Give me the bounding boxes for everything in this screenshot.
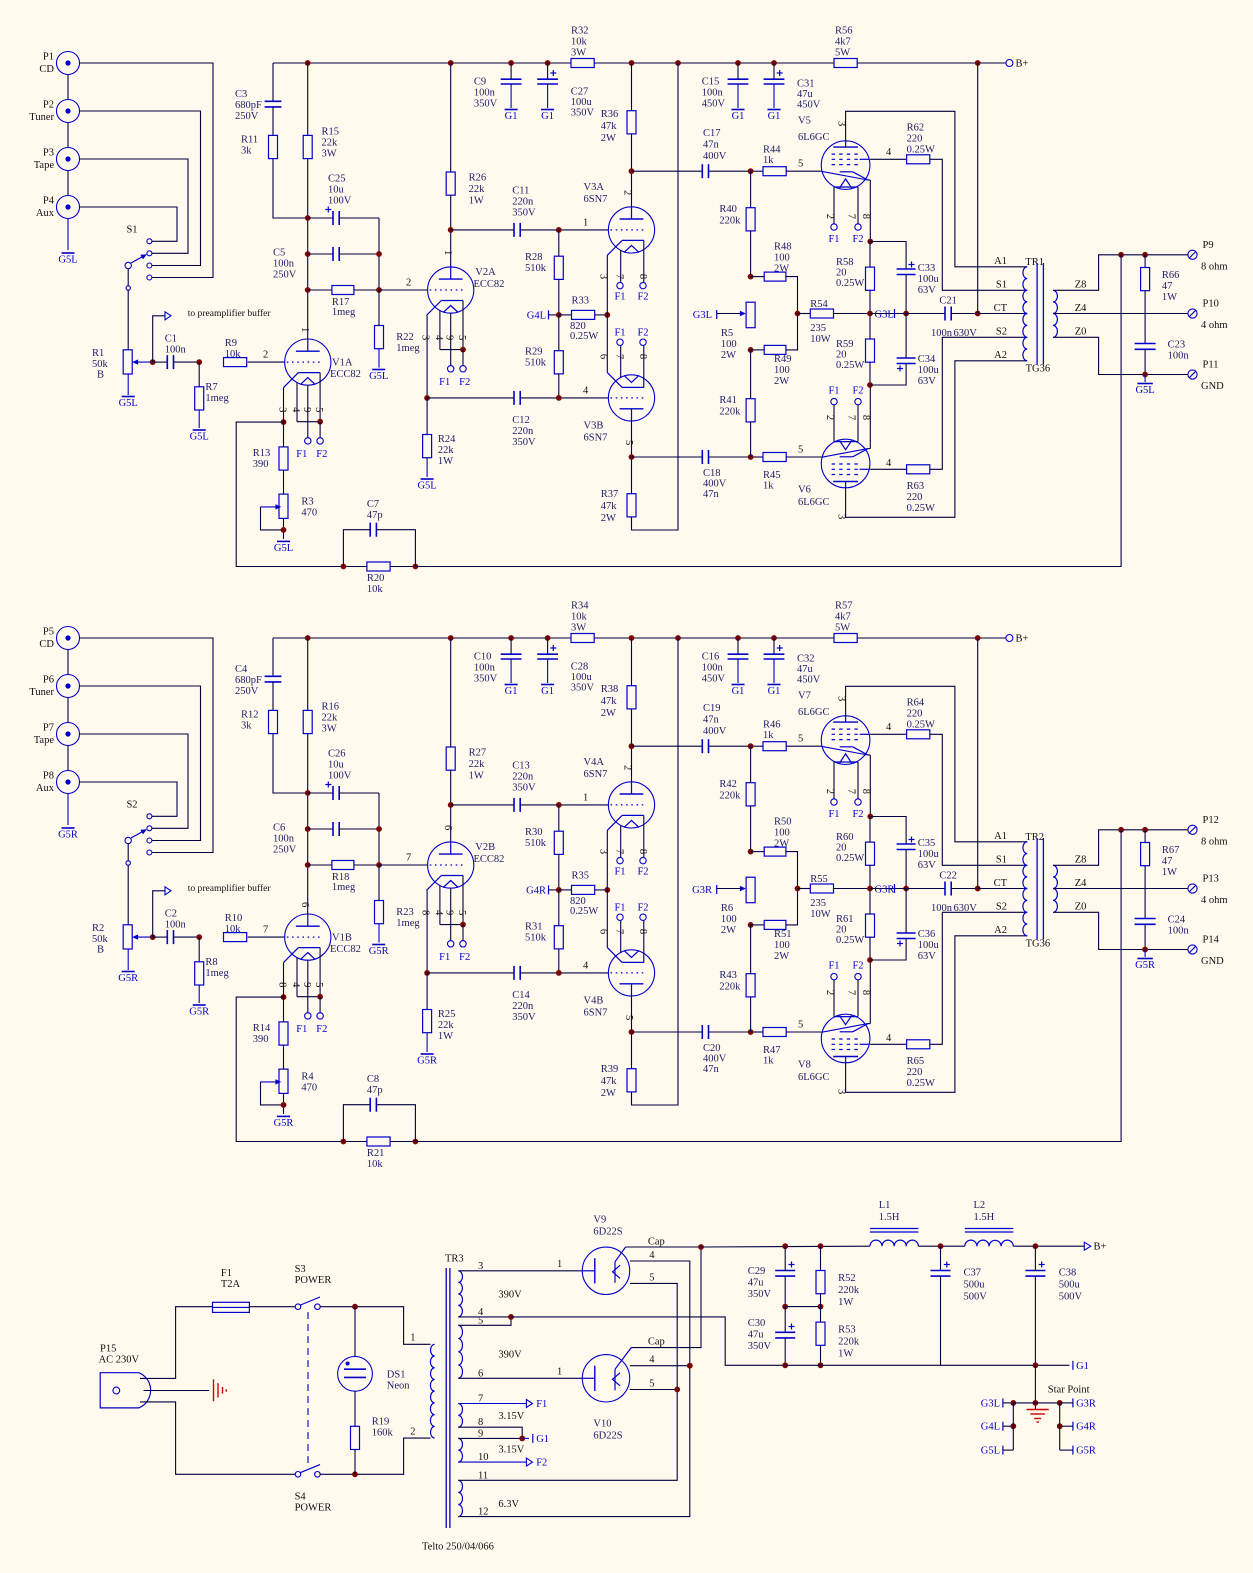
svg-text:R6: R6 (721, 903, 733, 914)
svg-text:F2: F2 (852, 961, 863, 972)
svg-text:R1: R1 (92, 348, 104, 359)
capacitor C38 500u 500V (1034, 1246, 1036, 1270)
svg-text:390V: 390V (498, 1290, 522, 1301)
capacitor C18 47n 400V (coupling) (632, 456, 703, 458)
capacitor C21 100n 630V (906, 313, 945, 315)
svg-text:3k: 3k (241, 721, 252, 732)
svg-text:47k: 47k (601, 501, 618, 512)
junction R49/pot bottom (748, 347, 754, 353)
wire B+ rail (273, 637, 571, 639)
resistor R53 220k 1W (bleeder) (820, 1307, 822, 1323)
svg-text:GND: GND (1201, 956, 1224, 967)
svg-text:6: 6 (299, 902, 310, 907)
wire L1 to L2 (918, 1245, 964, 1247)
svg-text:R64: R64 (907, 698, 925, 709)
svg-text:510k: 510k (525, 263, 547, 274)
svg-text:10W: 10W (810, 334, 831, 345)
resistor R54 235 10W (798, 313, 811, 315)
svg-text:22k: 22k (322, 138, 339, 149)
wire S3 to TR3 primary (320, 1307, 430, 1345)
svg-text:R44: R44 (763, 145, 781, 156)
svg-text:2: 2 (263, 350, 268, 361)
TR3 HV winding 2 (390V) (458, 1325, 462, 1378)
ground G5L (cathode pot) (277, 540, 290, 542)
junction B+ rail (305, 60, 311, 66)
svg-text:0.25W: 0.25W (836, 935, 864, 946)
wire R3 bottom (283, 518, 285, 539)
svg-text:220: 220 (907, 709, 923, 720)
svg-text:2W: 2W (774, 264, 789, 275)
wire Z8 to 8ohm terminal (1053, 255, 1187, 290)
svg-text:R27: R27 (469, 748, 487, 759)
svg-text:3.15V: 3.15V (498, 1411, 524, 1422)
svg-text:470: 470 (301, 508, 317, 519)
svg-text:P9: P9 (1203, 240, 1214, 251)
svg-text:4k7: 4k7 (835, 612, 851, 623)
svg-text:10u: 10u (328, 185, 345, 196)
svg-text:3: 3 (419, 335, 430, 340)
svg-text:3W: 3W (322, 724, 337, 735)
svg-text:P4: P4 (43, 196, 55, 207)
svg-text:390: 390 (253, 459, 269, 470)
wire V10 pin4 (630, 1365, 690, 1367)
svg-text:G4L: G4L (527, 310, 546, 321)
svg-text:R2: R2 (92, 923, 104, 934)
svg-text:6D22S: 6D22S (593, 1227, 622, 1238)
svg-text:P15: P15 (100, 1344, 116, 1355)
resistor R36 47k 2W (V3A plate load) (631, 63, 633, 111)
svg-text:S1: S1 (996, 280, 1007, 291)
svg-text:0.25W: 0.25W (907, 1078, 935, 1089)
capacitor C11 220n 350V (coupling) (451, 229, 514, 231)
svg-text:100n: 100n (931, 903, 953, 914)
junction C18/R45/R41 (748, 1029, 754, 1035)
svg-text:1: 1 (583, 218, 588, 229)
svg-text:4: 4 (583, 961, 589, 972)
svg-text:47n: 47n (703, 140, 720, 151)
svg-text:C35: C35 (918, 838, 936, 849)
svg-text:G3R: G3R (1076, 1398, 1096, 1409)
junction G4R (1057, 1423, 1063, 1429)
wire B+ to CT (977, 63, 979, 314)
svg-text:G5R: G5R (1135, 960, 1155, 971)
svg-text:7: 7 (845, 214, 856, 219)
svg-text:6L6GC: 6L6GC (798, 1072, 830, 1083)
resistor R38 47k 2W (V3A plate load) (631, 638, 633, 686)
svg-text:A1: A1 (994, 256, 1007, 267)
svg-text:1: 1 (299, 327, 310, 332)
svg-text:C20: C20 (703, 1043, 721, 1054)
svg-text:R38: R38 (601, 684, 619, 695)
svg-text:10k: 10k (367, 584, 384, 595)
svg-text:1W: 1W (838, 1297, 853, 1308)
capacitor C5 100n 250V (308, 253, 333, 255)
svg-text:G1: G1 (1076, 1361, 1089, 1372)
svg-text:100: 100 (774, 253, 790, 264)
svg-text:100n: 100n (474, 88, 496, 99)
svg-text:C23: C23 (1168, 340, 1186, 351)
junction B+ rail (629, 635, 635, 641)
wire raw B+ rail (701, 1245, 870, 1248)
net G3R stub (1072, 1398, 1074, 1407)
junction R17 right / V2 grid (376, 287, 382, 293)
svg-text:3: 3 (836, 696, 847, 701)
svg-text:12: 12 (478, 1507, 489, 1518)
svg-text:G5R: G5R (274, 1118, 294, 1129)
resistor R62 220 0.25W (screen) (870, 158, 907, 160)
svg-text:350V: 350V (512, 208, 536, 219)
svg-text:9: 9 (444, 910, 455, 915)
svg-text:to preamplifier buffer: to preamplifier buffer (188, 308, 272, 319)
svg-text:2: 2 (410, 1427, 415, 1438)
resistor R15 22k 3W (307, 63, 309, 135)
svg-text:400V: 400V (703, 151, 727, 162)
svg-text:ECC82: ECC82 (474, 854, 505, 865)
svg-text:100n: 100n (931, 328, 953, 339)
svg-text:500V: 500V (964, 1292, 988, 1303)
svg-text:V3B: V3B (584, 421, 604, 432)
wire C29/C30 mid to R52/R53 (785, 1306, 820, 1308)
capacitor C35 100u 63V (bypass) (897, 843, 916, 845)
svg-text:F2: F2 (637, 291, 648, 302)
wire R3 wiper (261, 1081, 280, 1083)
svg-text:220k: 220k (719, 407, 741, 418)
terminal P13 4 ohm (1188, 884, 1197, 893)
resistor R37 47k 2W (V3B plate load) (631, 457, 633, 494)
svg-text:6.3V: 6.3V (498, 1499, 519, 1510)
svg-text:S2: S2 (996, 902, 1007, 913)
svg-text:C32: C32 (797, 654, 815, 665)
svg-text:100: 100 (721, 339, 737, 350)
svg-text:G1: G1 (732, 111, 745, 122)
core TR1 (1036, 263, 1038, 365)
svg-text:G1: G1 (541, 111, 554, 122)
resistor R48 100 2W (751, 276, 765, 278)
svg-text:63V: 63V (918, 860, 937, 871)
svg-text:7: 7 (263, 925, 268, 936)
rectifier tube V9 6D22S (582, 1247, 629, 1294)
svg-text:100V: 100V (328, 196, 352, 207)
junction R52/R53 (818, 1304, 824, 1310)
junction R52 top (818, 1243, 824, 1249)
switch link (dashed) (307, 1312, 309, 1466)
junction G4 node (556, 887, 562, 893)
junction C17/R44/R40 (748, 743, 754, 749)
svg-text:R54: R54 (810, 299, 828, 310)
svg-text:S2: S2 (996, 327, 1007, 338)
resistor R45 1k (grid stopper) (751, 456, 763, 458)
svg-text:8: 8 (637, 929, 648, 934)
svg-text:ECC82: ECC82 (330, 944, 361, 955)
resistor R32 10k 3W (rail dropper) (571, 59, 594, 68)
svg-text:47: 47 (1162, 856, 1173, 867)
svg-text:100n: 100n (273, 834, 295, 845)
wire P6 to selector (80, 686, 201, 841)
wire star point (1034, 1365, 1036, 1409)
svg-text:350V: 350V (512, 1012, 536, 1023)
svg-text:450V: 450V (797, 675, 821, 686)
resistor R23 1meg (V2 grid leak) (378, 865, 380, 901)
junction C12/R29 (556, 970, 562, 976)
wire HV CT to ground bus (511, 1317, 785, 1365)
triode V4B 6SN7 (phase splitter) (608, 950, 654, 996)
svg-text:100u: 100u (571, 672, 593, 683)
resistor R17 1meg (308, 289, 332, 291)
wire P7 to selector (80, 734, 189, 828)
neon lamp DS1 (354, 1307, 356, 1357)
svg-text:C15: C15 (702, 77, 720, 88)
svg-text:G1: G1 (768, 111, 781, 122)
wire tap4/5 CT (458, 1316, 511, 1318)
potentiometer R4 470 (hum balance) (283, 1045, 285, 1069)
wire R15 to plate node (307, 159, 309, 290)
svg-text:47u: 47u (748, 1278, 765, 1289)
svg-text:1: 1 (442, 250, 453, 255)
switch S4 POWER (295, 1472, 301, 1478)
junction V3A plate node (629, 743, 635, 749)
svg-text:47: 47 (1162, 281, 1173, 292)
svg-text:P7: P7 (43, 723, 54, 734)
svg-text:R36: R36 (601, 109, 619, 120)
junction R17 left / V1 plate (305, 862, 311, 868)
junction R53 bottom (818, 1362, 824, 1368)
svg-text:22k: 22k (469, 184, 486, 195)
junction C25 left (305, 215, 311, 221)
wire P1 to selector (80, 63, 214, 278)
svg-text:R40: R40 (719, 204, 737, 215)
svg-text:R8: R8 (205, 957, 217, 968)
svg-text:4: 4 (583, 386, 589, 397)
junction R58/R59 mid (867, 311, 873, 317)
svg-text:F2: F2 (637, 902, 648, 913)
svg-text:350V: 350V (512, 783, 536, 794)
svg-text:5: 5 (649, 1273, 654, 1284)
svg-text:1W: 1W (438, 456, 453, 467)
svg-text:4 ohm: 4 ohm (1201, 320, 1228, 331)
wire R3 bottom (283, 1093, 285, 1114)
svg-text:100n: 100n (165, 345, 187, 356)
terminal P14 GND (1188, 945, 1197, 954)
ground G5L (input) (62, 252, 75, 254)
junction R48/pot top (748, 274, 754, 280)
svg-text:235: 235 (810, 898, 826, 909)
ground G5L (R24) (421, 478, 434, 480)
wire V6 cathode (869, 385, 871, 449)
resistor R22 1meg (V2 grid leak) (378, 290, 380, 326)
svg-text:1k: 1k (763, 481, 774, 492)
svg-text:G1: G1 (505, 686, 518, 697)
pentode V7 6L6GC (output) (821, 716, 870, 765)
svg-text:500V: 500V (1059, 1292, 1083, 1303)
svg-text:G1: G1 (768, 686, 781, 697)
svg-text:R60: R60 (836, 832, 854, 843)
net G3L (cathode mid) (870, 313, 906, 315)
svg-text:1W: 1W (838, 1349, 853, 1360)
svg-text:G3R: G3R (875, 885, 895, 896)
svg-text:Z4: Z4 (1075, 303, 1087, 314)
svg-text:7: 7 (845, 789, 856, 794)
svg-text:47p: 47p (367, 1085, 383, 1096)
svg-text:C13: C13 (512, 761, 530, 772)
resistor R18 1meg (308, 864, 332, 866)
junction C38 top (1033, 1243, 1039, 1249)
svg-text:2W: 2W (721, 350, 736, 361)
capacitor C23 100n (zobel) (1135, 343, 1156, 345)
junction CT / B+ column (975, 311, 981, 317)
wire R63 to S2 tap (930, 337, 1027, 469)
svg-text:20: 20 (836, 843, 847, 854)
resistor R56 4k7 5W (rail dropper) (834, 59, 857, 68)
capacitor C4 680pF 250V (272, 638, 274, 676)
svg-text:220n: 220n (512, 197, 534, 208)
svg-text:F1: F1 (439, 952, 450, 963)
svg-text:C38: C38 (1059, 1268, 1077, 1279)
svg-text:100n: 100n (702, 663, 724, 674)
svg-text:F2: F2 (316, 1024, 327, 1035)
svg-text:220k: 220k (719, 216, 741, 227)
wire Z0 to GND terminal (1053, 912, 1187, 949)
svg-text:C28: C28 (571, 662, 589, 673)
resistor R21 10k (feedback) (367, 1137, 390, 1146)
triode V2B ECC82 (driver) (428, 842, 474, 888)
svg-text:R50: R50 (774, 817, 792, 828)
svg-text:5: 5 (456, 335, 467, 340)
ground G1 (C27) (541, 684, 554, 686)
svg-text:C21: C21 (939, 296, 957, 307)
junction heater line 4 (687, 1363, 693, 1369)
svg-text:0.25W: 0.25W (836, 278, 864, 289)
svg-text:C30: C30 (748, 1318, 766, 1329)
junction R33 right (604, 312, 610, 318)
svg-text:47u: 47u (748, 1330, 765, 1341)
svg-text:R23: R23 (396, 907, 414, 918)
svg-text:V3A: V3A (584, 182, 605, 193)
svg-text:R21: R21 (367, 1148, 385, 1159)
svg-text:500u: 500u (964, 1280, 986, 1291)
svg-text:G5L: G5L (417, 481, 436, 492)
svg-text:S1: S1 (126, 225, 137, 236)
svg-text:8 ohm: 8 ohm (1201, 836, 1228, 847)
junction B+ rail (975, 60, 981, 66)
svg-text:10k: 10k (367, 1159, 384, 1170)
capacitor C7 47p (feedback) (343, 530, 370, 567)
svg-text:47n: 47n (703, 489, 720, 500)
svg-text:R61: R61 (836, 914, 854, 925)
svg-text:C31: C31 (797, 79, 815, 90)
wire RCA ground chain (67, 650, 69, 675)
svg-text:350V: 350V (571, 108, 595, 119)
junction heater CT (519, 1436, 525, 1442)
wire R62 to S1 tap (930, 159, 1027, 290)
svg-text:220k: 220k (838, 1337, 860, 1348)
svg-text:Tape: Tape (34, 160, 55, 171)
svg-text:AC 230V: AC 230V (99, 1355, 140, 1366)
svg-text:S2: S2 (126, 800, 137, 811)
junction C37 top (938, 1243, 944, 1249)
wire C11 to V3A grid (559, 804, 609, 806)
svg-text:2: 2 (824, 214, 835, 219)
ground G5R (pot) (122, 971, 135, 973)
svg-text:R12: R12 (241, 710, 259, 721)
wire R11 to C25 node (273, 159, 308, 218)
svg-text:G5L: G5L (1135, 385, 1154, 396)
svg-text:630V: 630V (954, 328, 978, 339)
svg-text:C34: C34 (918, 354, 936, 365)
svg-text:C33: C33 (918, 263, 936, 274)
svg-text:350V: 350V (748, 1341, 772, 1352)
junction R3 bottom (281, 1102, 287, 1108)
svg-text:F1: F1 (221, 1268, 232, 1279)
svg-text:F1: F1 (614, 327, 625, 338)
resistor R26 22k 1W (V2 plate load) (450, 63, 452, 172)
wire tap8/9 to G1 (458, 1427, 522, 1438)
svg-text:F1: F1 (828, 386, 839, 397)
resistor R8 1meg (grid leak) (198, 937, 200, 962)
junction C1/R7 (196, 359, 202, 365)
svg-text:Z4: Z4 (1075, 878, 1087, 889)
capacitor C33 100u 63V (bypass) (897, 268, 916, 270)
svg-text:0.25W: 0.25W (570, 331, 598, 342)
svg-text:220k: 220k (838, 1285, 860, 1296)
svg-text:C17: C17 (703, 128, 721, 139)
wire Z4 to 4ohm terminal (1053, 313, 1187, 315)
svg-text:Z8: Z8 (1075, 855, 1087, 866)
resistor R57 4k7 5W (rail dropper) (834, 634, 857, 643)
capacitor C34 100u 63V (bypass) (905, 314, 907, 359)
svg-text:TR3: TR3 (445, 1254, 464, 1265)
wire tap3 to V9 (458, 1270, 582, 1272)
core TR3 (445, 1268, 447, 1528)
svg-text:6: 6 (598, 354, 609, 359)
svg-text:Aux: Aux (36, 783, 55, 794)
svg-text:G3L: G3L (693, 310, 712, 321)
svg-text:R22: R22 (396, 332, 414, 343)
svg-text:8: 8 (637, 354, 648, 359)
svg-text:A1: A1 (994, 831, 1007, 842)
svg-text:22k: 22k (438, 1020, 455, 1031)
junction C5 right (376, 251, 382, 257)
junction R48/pot top (748, 849, 754, 855)
resistor R7 1meg (grid leak) (198, 362, 200, 387)
pentode V6 6L6GC (output) (821, 439, 870, 488)
terminal P10 4 ohm (1188, 309, 1197, 318)
svg-text:V6: V6 (798, 485, 811, 496)
junction star G3 row (1033, 1400, 1039, 1406)
svg-text:6: 6 (478, 1368, 483, 1379)
svg-text:R43: R43 (719, 970, 737, 981)
capacitor C25 10u 100V (electrolytic) (308, 217, 333, 219)
svg-text:R49: R49 (774, 354, 792, 365)
svg-text:250V: 250V (235, 111, 259, 122)
junction G4 node (556, 312, 562, 318)
svg-text:Z0: Z0 (1075, 327, 1087, 338)
terminal P12 8 ohm (1188, 825, 1197, 834)
svg-text:5: 5 (798, 445, 803, 456)
svg-text:A2: A2 (994, 350, 1007, 361)
svg-text:F2: F2 (536, 1458, 547, 1469)
svg-text:F1: F1 (828, 809, 839, 820)
svg-text:S4: S4 (295, 1492, 307, 1503)
svg-text:220: 220 (907, 1067, 923, 1078)
wire V2 plate (450, 230, 452, 267)
wire feedback to cathode (236, 422, 343, 566)
potentiometer R1 50k B (volume) (123, 350, 132, 374)
resistor R44 1k (grid stopper) (751, 170, 763, 172)
svg-text:R4: R4 (301, 1072, 314, 1083)
svg-text:400V: 400V (703, 1054, 727, 1065)
svg-text:Star Point: Star Point (1048, 1385, 1090, 1396)
junction B+ rail (735, 60, 741, 66)
